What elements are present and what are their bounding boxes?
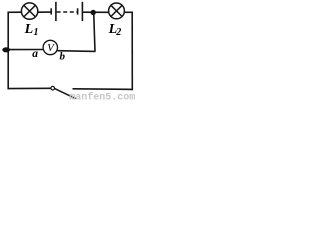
lamp L1 [21, 3, 37, 19]
wire battery to lamp L2 [83, 11, 109, 13]
wire lamp L1 to battery [38, 11, 51, 13]
switch S (open): lever [54, 88, 75, 98]
lamp L2 [109, 3, 125, 19]
wire lamp L2 to top-right corner [124, 11, 132, 13]
wire junction to voltmeter (node a side) [8, 49, 43, 51]
svg-text:2: 2 [115, 27, 121, 38]
battery cell 2 (short negative plate) [77, 8, 79, 14]
wire right vertical [131, 12, 133, 91]
wire bottom-left (left corner to switch pivot) [8, 87, 52, 89]
svg-text:1: 1 [34, 27, 39, 38]
svg-text:b: b [60, 50, 66, 62]
svg-text:a: a [32, 48, 38, 60]
wire bottom-right (switch contact to right corner) [73, 88, 134, 91]
switch S pivot circle [51, 86, 55, 90]
wire left vertical [7, 12, 9, 90]
junction node (battery + / voltmeter branch) [91, 10, 96, 15]
svg-text:L: L [24, 22, 34, 37]
wire voltmeter to right branch corner (node b side) [57, 50, 95, 53]
battery cell 1 (short negative plate) [50, 8, 52, 14]
battery cell 1 (long positive plate) [55, 2, 57, 21]
battery cell 2 (long positive plate) [81, 2, 83, 21]
dashed wire (battery continuation) [57, 11, 77, 13]
svg-text:manfen5.com: manfen5.com [69, 92, 135, 101]
wire top-left to lamp L1 [8, 11, 22, 13]
wire branch vertical up to junction [94, 13, 95, 52]
voltmeter V [43, 40, 57, 54]
junction node (left wire / voltmeter branch) [2, 47, 10, 52]
